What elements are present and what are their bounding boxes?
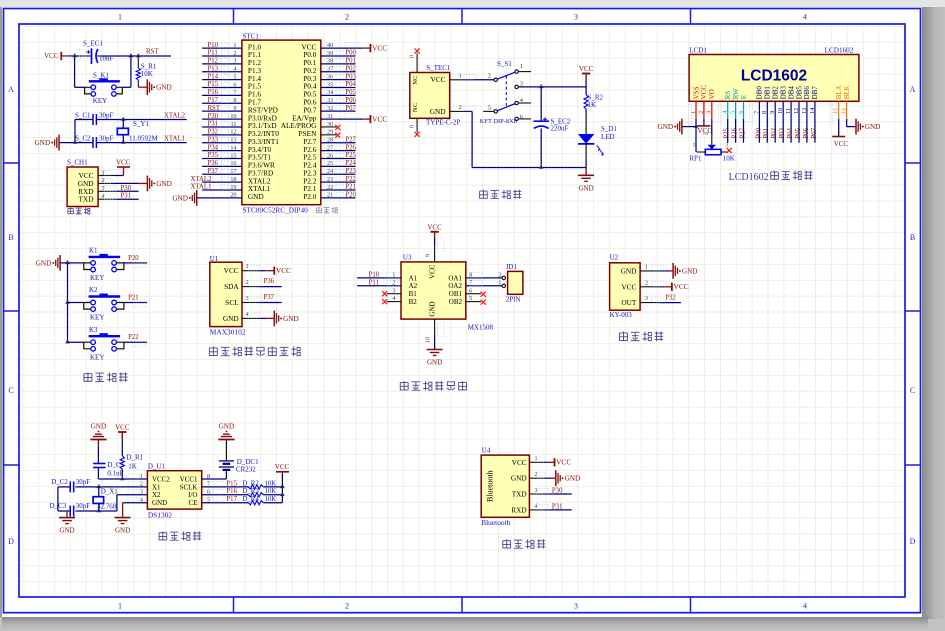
svg-text:P32: P32 <box>665 295 676 302</box>
svg-text:S_C1: S_C1 <box>75 111 91 119</box>
svg-text:P15: P15 <box>226 480 237 487</box>
svg-text:2: 2 <box>498 271 501 278</box>
svg-text:P17: P17 <box>226 496 237 503</box>
svg-text:D_R1: D_R1 <box>126 453 143 461</box>
svg-text:VCC: VCC <box>276 266 291 275</box>
svg-text:P2.0: P2.0 <box>303 192 317 201</box>
svg-text:VCC: VCC <box>834 140 849 148</box>
svg-text:U4: U4 <box>482 447 491 455</box>
svg-text:OB2: OB2 <box>449 298 463 306</box>
svg-text:P37: P37 <box>208 168 219 175</box>
svg-text:B2: B2 <box>409 298 418 306</box>
svg-text:15: 15 <box>230 152 236 159</box>
svg-text:1: 1 <box>459 73 462 80</box>
svg-text:KEY: KEY <box>90 353 104 361</box>
svg-text:10: 10 <box>777 108 784 114</box>
svg-text:16: 16 <box>841 108 848 114</box>
svg-text:1: 1 <box>693 143 696 149</box>
svg-text:P20: P20 <box>345 192 356 199</box>
svg-text:2: 2 <box>698 111 705 114</box>
svg-text:VCC: VCC <box>44 52 59 60</box>
svg-text:P21: P21 <box>345 184 356 191</box>
svg-text:A: A <box>910 85 916 94</box>
svg-text:P22: P22 <box>128 334 139 341</box>
svg-text:VCC: VCC <box>512 458 527 467</box>
svg-text:X2: X2 <box>152 491 161 499</box>
svg-text:P24: P24 <box>345 160 356 167</box>
svg-text:U3: U3 <box>403 254 412 262</box>
svg-text:RST: RST <box>146 48 160 56</box>
svg-text:P23: P23 <box>345 168 356 175</box>
svg-text:OUT: OUT <box>621 298 637 307</box>
svg-text:DB1: DB1 <box>764 86 772 100</box>
svg-text:P26: P26 <box>732 127 739 138</box>
svg-text:P27: P27 <box>739 127 746 138</box>
svg-text:MX1508: MX1508 <box>468 324 494 332</box>
svg-text:2: 2 <box>233 50 236 57</box>
svg-text:P25: P25 <box>724 127 731 138</box>
svg-text:S_K1: S_K1 <box>93 72 109 80</box>
svg-text:2: 2 <box>345 13 349 22</box>
svg-text:10uF: 10uF <box>99 54 114 62</box>
svg-text:GND: GND <box>219 423 235 431</box>
svg-text:9: 9 <box>769 111 776 114</box>
svg-text:13: 13 <box>801 108 808 114</box>
svg-text:DB0: DB0 <box>756 86 764 100</box>
svg-text:1K: 1K <box>128 463 137 471</box>
svg-text:P10: P10 <box>369 271 380 278</box>
svg-text:RP1: RP1 <box>689 154 702 162</box>
svg-text:11: 11 <box>785 108 792 114</box>
svg-text:3: 3 <box>392 287 395 294</box>
svg-text:DB7: DB7 <box>811 86 819 100</box>
svg-text:1: 1 <box>118 13 122 22</box>
svg-text:P04: P04 <box>345 81 356 88</box>
svg-text:1: 1 <box>645 264 648 271</box>
svg-text:CE: CE <box>189 499 198 507</box>
svg-text:13: 13 <box>230 137 236 144</box>
svg-text:C: C <box>910 386 915 395</box>
svg-text:JD1: JD1 <box>506 263 518 271</box>
svg-text:P26: P26 <box>345 144 356 151</box>
svg-text:5: 5 <box>233 73 236 80</box>
svg-text:C: C <box>8 386 13 395</box>
svg-text:GND: GND <box>152 499 167 507</box>
svg-text:VCC: VCC <box>579 65 594 73</box>
svg-text:S_TEC1: S_TEC1 <box>426 64 451 72</box>
svg-text:TYPE-C-2P: TYPE-C-2P <box>426 119 460 127</box>
svg-text:5: 5 <box>488 105 491 112</box>
svg-text:7: 7 <box>753 111 760 114</box>
svg-text:P05: P05 <box>795 127 802 138</box>
svg-text:B: B <box>910 233 915 242</box>
svg-text:12: 12 <box>793 108 800 114</box>
svg-text:KEY: KEY <box>90 314 104 322</box>
svg-text:LCD1602: LCD1602 <box>741 68 807 85</box>
svg-text:BLK: BLK <box>843 85 851 99</box>
svg-text:P15: P15 <box>208 81 219 88</box>
svg-text:A2: A2 <box>409 282 418 290</box>
svg-text:Bluetooth: Bluetooth <box>485 470 494 502</box>
svg-text:VCC: VCC <box>430 75 445 84</box>
svg-text:3: 3 <box>535 487 538 494</box>
svg-text:P30: P30 <box>208 113 219 120</box>
svg-text:GND: GND <box>156 180 172 188</box>
svg-text:S_EC1: S_EC1 <box>83 40 103 48</box>
svg-text:7: 7 <box>233 89 236 96</box>
svg-text:10K: 10K <box>723 154 735 162</box>
svg-text:VCC2: VCC2 <box>152 475 170 483</box>
svg-text:VCC: VCC <box>275 463 290 471</box>
svg-text:P10: P10 <box>208 42 219 49</box>
svg-text:3: 3 <box>574 602 578 611</box>
svg-text:10: 10 <box>230 113 236 120</box>
svg-text:P01: P01 <box>345 58 356 65</box>
svg-text:B: B <box>8 233 13 242</box>
svg-text:KY-003: KY-003 <box>610 311 633 319</box>
svg-text:GND: GND <box>91 423 107 431</box>
svg-text:RXD: RXD <box>511 505 526 514</box>
svg-text:CR232: CR232 <box>236 466 256 474</box>
svg-text:VCC: VCC <box>700 85 708 100</box>
svg-text:10K: 10K <box>141 70 153 78</box>
svg-text:6: 6 <box>233 81 236 88</box>
svg-text:GND: GND <box>283 315 299 323</box>
svg-text:P25: P25 <box>345 152 356 159</box>
svg-text:MAX30102: MAX30102 <box>210 328 246 337</box>
svg-text:5: 5 <box>730 111 737 114</box>
svg-text:I/O: I/O <box>188 491 197 499</box>
svg-text:STC89C52RC_DIP40: STC89C52RC_DIP40 <box>243 206 309 215</box>
svg-text:VCC: VCC <box>116 159 131 167</box>
svg-text:P02: P02 <box>771 127 778 138</box>
svg-text:P31: P31 <box>552 503 563 510</box>
svg-text:P36: P36 <box>208 160 219 167</box>
svg-text:P07: P07 <box>811 127 818 138</box>
svg-text:RS: RS <box>724 91 732 100</box>
svg-text:P03: P03 <box>345 73 356 80</box>
svg-text:Bluetooth: Bluetooth <box>481 518 510 527</box>
svg-text:P05: P05 <box>345 89 356 96</box>
svg-text:P12: P12 <box>208 58 219 65</box>
svg-text:10K: 10K <box>265 488 277 495</box>
svg-text:GND: GND <box>621 266 637 275</box>
svg-text:VCC: VCC <box>224 266 239 275</box>
svg-text:GND: GND <box>36 259 52 267</box>
svg-text:4: 4 <box>803 602 807 611</box>
svg-text:0: 0 <box>410 55 416 58</box>
svg-text:GND: GND <box>35 139 51 147</box>
svg-text:P01: P01 <box>763 128 770 139</box>
svg-text:20: 20 <box>230 192 236 199</box>
svg-text:D_C2: D_C2 <box>51 478 68 486</box>
svg-text:K1: K1 <box>89 247 98 255</box>
svg-text:4: 4 <box>535 503 538 510</box>
svg-text:E: E <box>740 95 748 99</box>
svg-text:P06: P06 <box>803 127 810 138</box>
svg-text:DS1302: DS1302 <box>148 511 173 520</box>
svg-text:4: 4 <box>722 111 729 114</box>
svg-text:1K: 1K <box>588 101 597 109</box>
svg-text:SCL: SCL <box>225 298 239 307</box>
svg-text:VCC: VCC <box>427 223 442 231</box>
svg-text:OA1: OA1 <box>448 274 462 282</box>
svg-text:P17: P17 <box>208 97 219 104</box>
svg-text:P35: P35 <box>208 152 219 159</box>
svg-text:GND: GND <box>427 359 442 367</box>
svg-text:2: 2 <box>488 72 491 79</box>
svg-text:3: 3 <box>233 58 236 65</box>
svg-text:P31: P31 <box>208 121 219 128</box>
svg-text:3: 3 <box>645 295 648 302</box>
svg-text:VSS: VSS <box>692 86 700 99</box>
svg-text:P11: P11 <box>369 279 379 286</box>
svg-text:B1: B1 <box>409 290 418 298</box>
svg-text:GND: GND <box>682 267 698 275</box>
svg-text:4: 4 <box>803 13 807 22</box>
svg-text:GND: GND <box>156 84 172 92</box>
svg-text:GND: GND <box>223 314 239 323</box>
svg-text:P13: P13 <box>208 65 219 72</box>
svg-text:30pF: 30pF <box>99 111 114 119</box>
svg-text:P21: P21 <box>128 294 139 301</box>
svg-text:K3: K3 <box>89 326 98 334</box>
svg-text:30pF: 30pF <box>99 134 114 142</box>
svg-text:RST: RST <box>208 105 221 112</box>
svg-text:P16: P16 <box>226 488 237 495</box>
svg-text:A: A <box>8 85 14 94</box>
svg-text:KEY: KEY <box>93 97 107 105</box>
svg-text:GND: GND <box>248 192 264 201</box>
svg-text:XTAL2: XTAL2 <box>191 176 213 183</box>
svg-text:GND: GND <box>565 475 581 483</box>
svg-text:P27: P27 <box>345 136 356 143</box>
svg-text:0.1uF: 0.1uF <box>107 469 123 477</box>
svg-text:VCC: VCC <box>372 114 387 123</box>
svg-text:9: 9 <box>233 105 236 112</box>
svg-text:2: 2 <box>459 104 462 111</box>
svg-text:19: 19 <box>230 184 236 191</box>
svg-text:KFT DIP-8X8: KFT DIP-8X8 <box>480 118 517 125</box>
svg-text:P34: P34 <box>208 144 219 151</box>
svg-text:K2: K2 <box>89 286 98 294</box>
svg-text:VCC1: VCC1 <box>180 475 198 483</box>
svg-text:DB4: DB4 <box>787 86 795 100</box>
svg-text:DB6: DB6 <box>803 86 811 100</box>
svg-text:18: 18 <box>230 176 236 183</box>
svg-text:OA2: OA2 <box>448 282 462 290</box>
svg-text:4: 4 <box>246 311 249 318</box>
svg-text:LCD1602: LCD1602 <box>825 47 854 55</box>
svg-text:VCC: VCC <box>115 424 130 432</box>
svg-text:11: 11 <box>231 121 237 128</box>
svg-text:TXD: TXD <box>79 195 94 204</box>
svg-text:S_S1: S_S1 <box>497 60 512 68</box>
svg-text:VCC: VCC <box>372 43 387 52</box>
svg-text:VO: VO <box>708 89 716 99</box>
svg-text:P36: P36 <box>264 278 275 285</box>
svg-text:2: 2 <box>345 602 349 611</box>
svg-text:RW: RW <box>732 88 740 99</box>
svg-text:GND: GND <box>429 301 437 316</box>
svg-text:XTAL2: XTAL2 <box>164 112 186 119</box>
svg-text:SDA: SDA <box>224 282 239 291</box>
svg-text:GND: GND <box>579 184 594 192</box>
svg-text:32.768: 32.768 <box>97 502 117 510</box>
svg-text:GND: GND <box>430 107 446 116</box>
svg-text:LED: LED <box>601 133 615 141</box>
svg-text:10K: 10K <box>265 496 277 503</box>
svg-text:S_CH1: S_CH1 <box>67 159 88 167</box>
svg-text:1: 1 <box>118 602 122 611</box>
svg-text:14: 14 <box>809 108 816 114</box>
svg-text:P11: P11 <box>208 50 218 57</box>
svg-text:XTAL1: XTAL1 <box>164 135 185 142</box>
svg-text:10K: 10K <box>265 480 277 487</box>
svg-text:GND: GND <box>511 474 527 483</box>
svg-text:30pF: 30pF <box>76 502 91 510</box>
svg-text:8: 8 <box>233 97 236 104</box>
svg-text:12: 12 <box>230 129 236 136</box>
svg-text:U2: U2 <box>610 254 619 262</box>
svg-text:17: 17 <box>230 168 236 175</box>
svg-text:6: 6 <box>737 111 744 114</box>
svg-text:1: 1 <box>246 263 249 270</box>
svg-text:D: D <box>910 537 916 546</box>
svg-text:P30: P30 <box>121 185 132 192</box>
svg-text:SCLK: SCLK <box>180 483 198 491</box>
svg-text:1: 1 <box>520 63 523 70</box>
svg-text:NC: NC <box>412 76 419 85</box>
svg-text:P02: P02 <box>345 65 356 72</box>
svg-text:DB2: DB2 <box>772 86 780 100</box>
svg-text:D_R4: D_R4 <box>243 496 260 503</box>
svg-text:P00: P00 <box>755 127 762 138</box>
svg-text:GND: GND <box>865 123 881 131</box>
svg-text:BLA: BLA <box>835 85 843 99</box>
svg-text:P32: P32 <box>208 129 219 136</box>
svg-text:X1: X1 <box>152 483 161 491</box>
svg-text:P20: P20 <box>128 255 139 262</box>
svg-text:1: 1 <box>233 42 236 49</box>
svg-text:1: 1 <box>498 279 501 286</box>
svg-text:P04: P04 <box>787 127 794 138</box>
svg-text:P07: P07 <box>345 105 356 112</box>
svg-text:1: 1 <box>690 111 697 114</box>
svg-text:9: 9 <box>425 254 431 257</box>
svg-text:LCD1602: LCD1602 <box>729 172 769 183</box>
svg-text:TXD: TXD <box>512 490 527 499</box>
svg-text:14: 14 <box>230 144 236 151</box>
svg-text:P03: P03 <box>779 127 786 138</box>
svg-text:P00: P00 <box>345 50 356 57</box>
svg-text:GND: GND <box>658 123 674 131</box>
svg-text:DB5: DB5 <box>795 86 803 100</box>
svg-text:D: D <box>8 537 14 546</box>
svg-text:OB1: OB1 <box>449 290 463 298</box>
svg-text:3: 3 <box>706 111 713 114</box>
svg-text:VCC: VCC <box>429 264 437 279</box>
svg-text:VCC: VCC <box>556 458 571 467</box>
svg-text:KEY: KEY <box>90 274 104 282</box>
svg-text:8: 8 <box>761 111 768 114</box>
svg-text:D_R2: D_R2 <box>243 480 260 487</box>
svg-text:GND: GND <box>115 527 130 535</box>
svg-text:3: 3 <box>574 13 578 22</box>
svg-text:30pF: 30pF <box>76 478 91 486</box>
svg-text:VCC: VCC <box>674 282 689 291</box>
svg-text:11.0592M: 11.0592M <box>129 134 158 142</box>
svg-text:GND: GND <box>59 527 74 535</box>
svg-text:2PIN: 2PIN <box>506 296 521 304</box>
svg-text:D_R3: D_R3 <box>243 488 260 495</box>
svg-text:D_X1: D_X1 <box>101 488 119 496</box>
svg-text:15: 15 <box>833 108 840 114</box>
svg-text:GND: GND <box>172 194 188 202</box>
svg-text:220uF: 220uF <box>551 125 569 133</box>
svg-text:DB3: DB3 <box>780 86 788 100</box>
svg-text:S_C2: S_C2 <box>75 134 91 142</box>
svg-text:2: 2 <box>645 279 648 286</box>
svg-text:VCC: VCC <box>621 282 636 291</box>
svg-text:STC1: STC1 <box>243 33 260 41</box>
svg-text:NC: NC <box>412 103 419 112</box>
svg-text:S_Y1: S_Y1 <box>133 120 149 128</box>
svg-text:P16: P16 <box>208 89 219 96</box>
svg-text:P30: P30 <box>552 488 563 495</box>
svg-text:P31: P31 <box>121 193 132 200</box>
svg-text:LCD1: LCD1 <box>689 47 707 55</box>
svg-text:P37: P37 <box>264 294 275 301</box>
svg-text:XTAL1: XTAL1 <box>191 184 212 191</box>
svg-text:4: 4 <box>233 66 236 73</box>
svg-text:D_U1: D_U1 <box>148 463 166 471</box>
svg-text:P06: P06 <box>345 97 356 104</box>
svg-text:P14: P14 <box>208 73 219 80</box>
svg-text:P33: P33 <box>208 136 219 143</box>
svg-text:16: 16 <box>230 160 236 167</box>
svg-text:A1: A1 <box>409 274 418 282</box>
svg-text:10: 10 <box>425 337 431 343</box>
svg-text:P22: P22 <box>345 176 356 183</box>
svg-text:0: 0 <box>410 125 416 128</box>
